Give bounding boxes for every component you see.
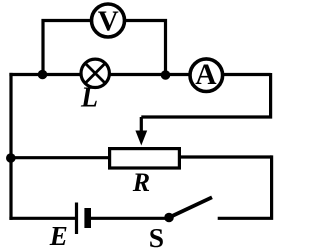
svg-text:S: S	[149, 222, 164, 250]
svg-text:L: L	[80, 82, 98, 113]
svg-text:E: E	[49, 221, 68, 250]
svg-text:R: R	[132, 168, 150, 197]
svg-text:V: V	[98, 5, 119, 37]
svg-text:A: A	[195, 59, 217, 91]
